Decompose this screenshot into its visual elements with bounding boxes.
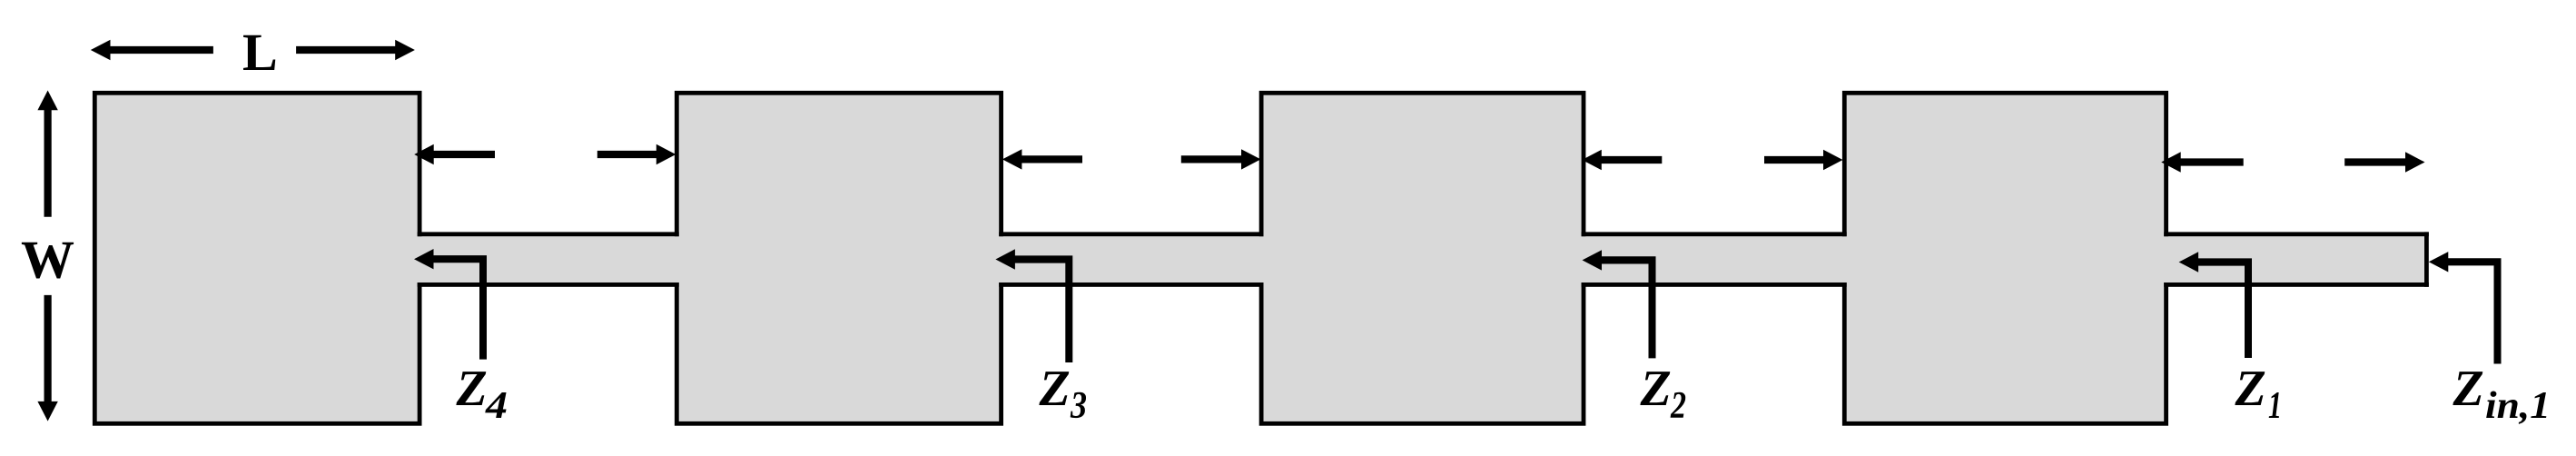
label Z4 [456,361,508,427]
wave arrow pair 4 (right of P4 / at stub end) [2161,152,2424,172]
svg-text:Z: Z [1640,361,1672,417]
label Z3 [1039,361,1088,427]
feed line strip S1 (between P1 and P2) [415,232,681,286]
wave arrow pair 2 (right of P2 / left of P3) [1002,149,1261,169]
svg-text:Z: Z [1039,361,1071,417]
svg-text:4: 4 [485,385,508,427]
patch P2 [676,93,1001,423]
svg-text:W: W [21,230,74,290]
svg-text:L: L [242,23,278,82]
patch P1 [94,93,419,423]
input impedance hook arrow Zin,1 [2429,252,2502,363]
impedance hook arrow Z3 [995,249,1072,362]
wave arrow pair 3 (right of P3 / left of P4) [1582,150,1842,170]
svg-text:in,1: in,1 [2485,385,2551,427]
patch P3 [1261,93,1584,423]
wave arrow pair 1 (right of P1 / left of P2) [414,144,676,164]
feed line strip S2 (between P2 and P3) [997,232,1267,286]
label Zin,1 [2453,361,2551,427]
impedance hook arrow Z4 [414,249,487,360]
label Z2 [1640,361,1687,427]
feed line stub S4 (right of P4, closed end) [2162,232,2429,286]
svg-text:1: 1 [2268,385,2282,427]
impedance hook arrow Z2 [1583,250,1656,358]
label Z1 [2235,361,2283,427]
dimension arrow W (left of P1, split double-headed vertical) [37,91,57,421]
impedance hook arrow Z1 [2179,252,2252,358]
svg-text:Z: Z [2235,361,2266,417]
dimension arrow L (above P1, split double-headed) [91,40,415,60]
svg-text:3: 3 [1070,385,1087,427]
svg-text:2: 2 [1670,385,1686,427]
svg-text:Z: Z [2453,361,2484,417]
patch P4 [1844,93,2166,423]
svg-text:Z: Z [456,361,488,417]
feed line strip S3 (between P3 and P4) [1579,232,1850,286]
